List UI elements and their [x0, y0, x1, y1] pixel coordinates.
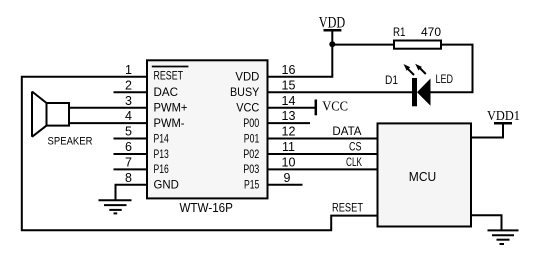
svg-text:MCU: MCU: [409, 169, 436, 184]
svg-text:13: 13: [282, 109, 296, 123]
svg-text:6: 6: [125, 140, 132, 154]
svg-text:LED: LED: [436, 72, 454, 86]
svg-text:15: 15: [282, 78, 296, 92]
svg-text:2: 2: [125, 78, 132, 92]
svg-text:CS: CS: [349, 140, 362, 154]
svg-text:VDD: VDD: [319, 15, 345, 32]
svg-text:CLK: CLK: [346, 155, 362, 169]
svg-text:10: 10: [282, 156, 296, 170]
svg-text:P16: P16: [154, 162, 170, 176]
svg-text:VCC: VCC: [236, 101, 259, 115]
svg-text:SPEAKER: SPEAKER: [48, 135, 93, 147]
svg-text:4: 4: [125, 109, 132, 123]
svg-text:RESET: RESET: [332, 201, 364, 215]
svg-text:D1: D1: [385, 73, 398, 87]
svg-text:P00: P00: [243, 116, 259, 130]
svg-text:P03: P03: [243, 162, 259, 176]
svg-text:RESET: RESET: [154, 69, 184, 83]
svg-text:GND: GND: [154, 178, 180, 192]
svg-text:VDD: VDD: [235, 70, 259, 84]
svg-text:P01: P01: [244, 131, 260, 145]
svg-text:470: 470: [421, 25, 441, 39]
svg-text:1: 1: [125, 63, 132, 77]
svg-text:5: 5: [125, 125, 132, 139]
svg-text:PWM+: PWM+: [154, 101, 188, 115]
svg-text:9: 9: [284, 171, 291, 185]
svg-text:BUSY: BUSY: [230, 85, 259, 99]
svg-text:16: 16: [282, 63, 296, 77]
svg-text:8: 8: [125, 171, 132, 185]
svg-text:DATA: DATA: [332, 124, 361, 138]
svg-text:DAC: DAC: [154, 85, 179, 99]
svg-text:WTW-16P: WTW-16P: [179, 200, 233, 215]
svg-text:3: 3: [125, 94, 132, 108]
svg-text:7: 7: [125, 156, 132, 170]
svg-text:VCC: VCC: [322, 99, 348, 114]
svg-text:P15: P15: [244, 178, 260, 192]
svg-text:12: 12: [282, 125, 296, 139]
svg-text:PWM-: PWM-: [154, 116, 185, 130]
svg-text:14: 14: [282, 94, 296, 108]
svg-text:P14: P14: [154, 131, 170, 145]
svg-text:11: 11: [282, 140, 295, 154]
svg-text:VDD1: VDD1: [487, 109, 520, 124]
svg-text:P13: P13: [154, 147, 170, 161]
svg-text:P02: P02: [243, 147, 259, 161]
svg-text:R1: R1: [393, 25, 406, 39]
